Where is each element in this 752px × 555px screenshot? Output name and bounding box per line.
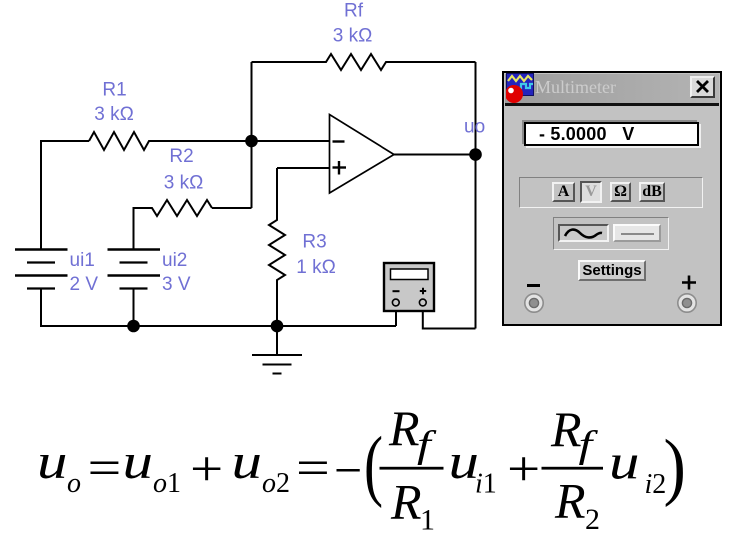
svg-text:−: − (334, 442, 362, 498)
svg-text:R: R (554, 473, 586, 529)
svg-text:1: 1 (420, 504, 435, 537)
svg-text:+: + (507, 441, 540, 497)
svg-text:f: f (417, 423, 437, 465)
svg-text:): ) (664, 424, 686, 508)
svg-text:u: u (37, 434, 68, 490)
svg-text:o1: o1 (153, 468, 181, 499)
svg-text:R: R (388, 400, 420, 456)
svg-text:=: = (88, 440, 122, 495)
svg-text:u: u (232, 434, 263, 490)
svg-text:2: 2 (585, 503, 600, 536)
svg-text:+: + (190, 441, 223, 497)
svg-text:u: u (609, 435, 640, 491)
svg-text:i1: i1 (475, 469, 497, 500)
svg-text:R: R (390, 474, 422, 530)
svg-text:u: u (123, 434, 154, 490)
svg-text:(: ( (364, 421, 383, 510)
svg-text:=: = (296, 440, 330, 495)
svg-text:R: R (550, 401, 582, 457)
svg-text:o: o (67, 468, 81, 499)
svg-text:f: f (579, 423, 599, 465)
svg-text:o2: o2 (262, 468, 290, 499)
